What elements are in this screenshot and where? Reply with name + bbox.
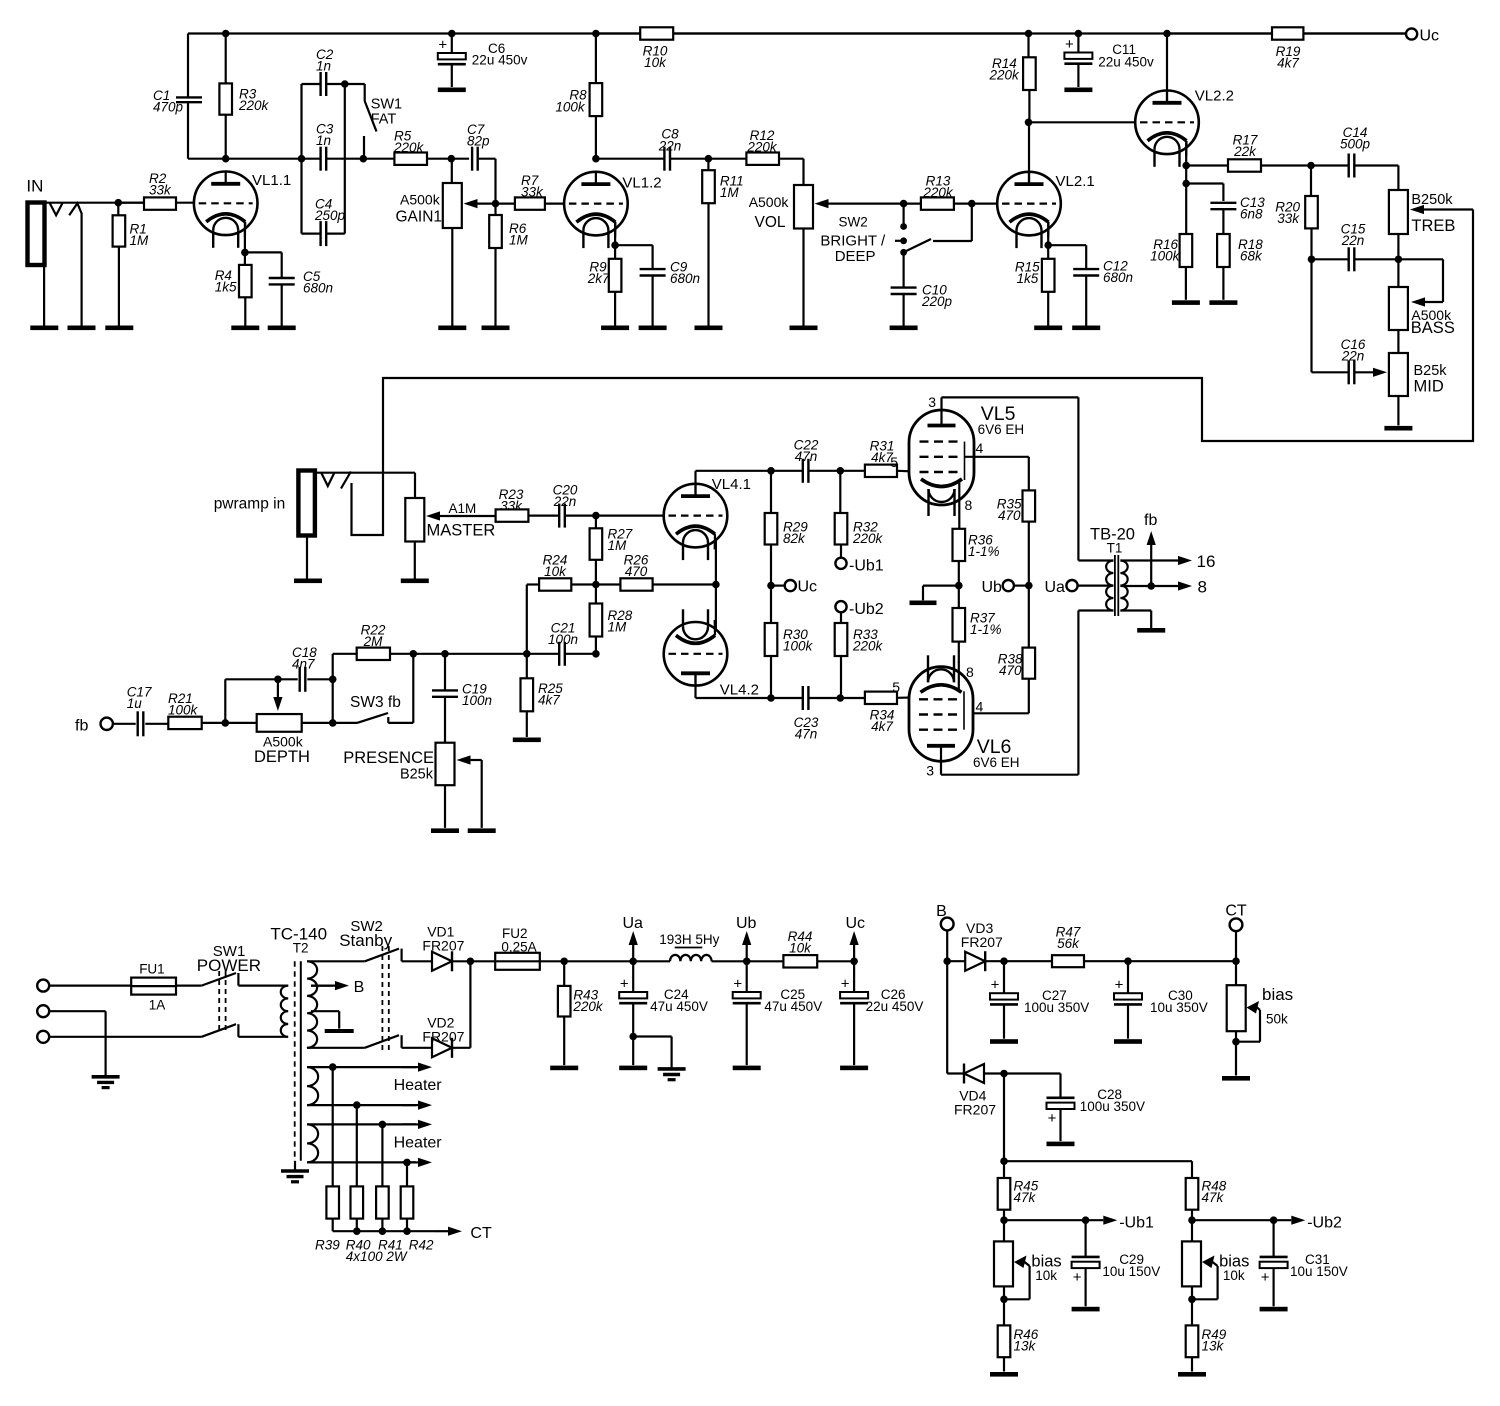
svg-text:bias: bias (1262, 985, 1293, 1004)
svg-text:Uc: Uc (1420, 28, 1440, 45)
svg-text:-Ub2: -Ub2 (849, 601, 884, 618)
svg-text:22k: 22k (1233, 144, 1257, 159)
svg-text:100k: 100k (168, 703, 199, 718)
svg-text:FR207: FR207 (422, 1029, 464, 1045)
svg-text:22n: 22n (1341, 233, 1365, 248)
svg-text:FR207: FR207 (422, 938, 464, 954)
svg-text:33k: 33k (500, 499, 523, 514)
svg-text:10k: 10k (1223, 1268, 1245, 1283)
svg-text:1M: 1M (509, 233, 529, 248)
svg-text:1-1%: 1-1% (970, 622, 1002, 637)
svg-text:1A: 1A (149, 998, 166, 1013)
svg-text:4k7: 4k7 (1277, 56, 1299, 71)
svg-text:1u: 1u (127, 696, 143, 711)
svg-text:4: 4 (976, 699, 984, 715)
svg-text:GAIN1: GAIN1 (396, 209, 443, 226)
svg-text:+: + (841, 976, 850, 993)
svg-text:220k: 220k (238, 98, 270, 113)
svg-text:+: + (1048, 1110, 1057, 1127)
svg-text:10k: 10k (1035, 1268, 1057, 1283)
svg-text:CT: CT (1225, 903, 1247, 920)
svg-text:2M: 2M (363, 634, 384, 649)
svg-text:220k: 220k (852, 531, 884, 546)
svg-text:VL4.2: VL4.2 (720, 682, 759, 699)
svg-text:22u 450v: 22u 450v (472, 53, 528, 68)
svg-text:47k: 47k (1014, 1190, 1037, 1205)
svg-text:SW1: SW1 (371, 97, 402, 113)
svg-text:680n: 680n (1103, 270, 1133, 285)
svg-text:VL1.2: VL1.2 (622, 175, 661, 192)
svg-text:250p: 250p (314, 208, 346, 223)
svg-text:pwramp in: pwramp in (214, 496, 286, 513)
svg-text:100u 350V: 100u 350V (1080, 1099, 1145, 1114)
svg-text:100u 350V: 100u 350V (1024, 1000, 1089, 1015)
svg-text:22u 450V: 22u 450V (866, 999, 924, 1014)
svg-text:Heater: Heater (394, 1135, 443, 1152)
svg-text:1k5: 1k5 (1017, 271, 1039, 286)
svg-text:220k: 220k (746, 140, 778, 155)
svg-text:Stanby: Stanby (339, 931, 392, 950)
svg-text:8: 8 (966, 664, 974, 680)
svg-text:FR207: FR207 (954, 1102, 996, 1118)
svg-text:SW2: SW2 (839, 215, 868, 230)
svg-text:DEPTH: DEPTH (254, 748, 310, 766)
svg-text:FU1: FU1 (139, 962, 165, 977)
svg-text:Ua: Ua (623, 915, 644, 932)
svg-text:-Ub1: -Ub1 (1119, 1215, 1154, 1232)
svg-text:3: 3 (926, 763, 934, 779)
svg-text:193H 5Hy: 193H 5Hy (659, 932, 719, 947)
svg-text:100n: 100n (548, 632, 578, 647)
svg-text:FR207: FR207 (961, 934, 1003, 950)
svg-text:33k: 33k (1277, 211, 1300, 226)
svg-text:0,25A: 0,25A (501, 940, 536, 955)
svg-text:13k: 13k (1014, 1339, 1037, 1354)
svg-text:470: 470 (999, 663, 1022, 678)
svg-text:470: 470 (625, 564, 648, 579)
svg-text:B25k: B25k (400, 767, 434, 783)
svg-text:470: 470 (998, 508, 1021, 523)
svg-text:BRIGHT /: BRIGHT / (820, 233, 886, 250)
svg-text:+: + (1073, 1269, 1082, 1286)
svg-text:Heater: Heater (394, 1077, 443, 1094)
svg-text:47u 450V: 47u 450V (764, 999, 822, 1014)
svg-text:10u 150V: 10u 150V (1102, 1264, 1160, 1279)
svg-text:82p: 82p (467, 134, 490, 149)
svg-text:100k: 100k (555, 100, 586, 115)
svg-text:fb: fb (1144, 512, 1157, 529)
svg-text:+: + (1065, 36, 1074, 53)
svg-text:100k: 100k (783, 639, 814, 654)
svg-text:10u 350V: 10u 350V (1150, 1000, 1208, 1015)
svg-text:6V6 EH: 6V6 EH (978, 422, 1025, 437)
svg-text:5: 5 (892, 679, 900, 695)
svg-text:4: 4 (976, 440, 984, 456)
svg-text:SW3 fb: SW3 fb (350, 694, 401, 711)
svg-text:50k: 50k (1266, 1012, 1288, 1027)
svg-text:PRESENCE: PRESENCE (343, 749, 434, 767)
svg-text:IN: IN (26, 177, 43, 196)
svg-text:+: + (620, 976, 629, 993)
svg-text:A500k: A500k (400, 192, 441, 208)
svg-text:+: + (1115, 977, 1124, 994)
svg-text:MASTER: MASTER (427, 522, 496, 540)
svg-text:fb: fb (75, 718, 88, 735)
svg-text:B: B (354, 979, 365, 996)
svg-text:13k: 13k (1202, 1339, 1225, 1354)
svg-text:T2: T2 (293, 941, 309, 956)
svg-text:220k: 220k (572, 999, 604, 1014)
svg-text:82k: 82k (783, 531, 806, 546)
svg-text:4x100 2W: 4x100 2W (346, 1249, 408, 1264)
svg-text:47n: 47n (795, 449, 818, 464)
svg-text:47k: 47k (1202, 1190, 1225, 1205)
svg-text:A1M: A1M (449, 501, 477, 516)
svg-text:1n: 1n (316, 133, 331, 148)
svg-text:10k: 10k (644, 55, 667, 70)
svg-text:VOL: VOL (755, 214, 786, 231)
svg-text:2k7: 2k7 (587, 271, 610, 286)
svg-text:1k5: 1k5 (215, 280, 237, 295)
svg-text:VL2.1: VL2.1 (1056, 173, 1095, 190)
svg-text:33k: 33k (149, 183, 172, 198)
svg-text:22n: 22n (658, 138, 682, 153)
svg-text:+: + (1261, 1269, 1270, 1286)
svg-text:Ub: Ub (982, 579, 1003, 596)
svg-text:8: 8 (1198, 578, 1207, 597)
svg-text:BASS: BASS (1411, 319, 1455, 337)
svg-text:10k: 10k (544, 564, 567, 579)
svg-text:1M: 1M (720, 185, 740, 200)
svg-text:22n: 22n (553, 494, 577, 509)
svg-text:22u 450v: 22u 450v (1098, 55, 1154, 70)
svg-text:680n: 680n (303, 281, 333, 296)
svg-text:FAT: FAT (371, 112, 397, 128)
svg-text:47n: 47n (795, 727, 818, 742)
svg-text:4k7: 4k7 (871, 719, 893, 734)
svg-text:4k7: 4k7 (538, 693, 560, 708)
svg-text:220k: 220k (922, 185, 954, 200)
svg-text:POWER: POWER (197, 956, 261, 975)
svg-text:+: + (438, 37, 447, 54)
svg-text:+: + (733, 976, 742, 993)
svg-text:-Ub2: -Ub2 (1307, 1215, 1342, 1232)
svg-text:100n: 100n (462, 693, 492, 708)
svg-text:10k: 10k (789, 941, 812, 956)
svg-text:47u 450V: 47u 450V (650, 999, 708, 1014)
svg-text:100k: 100k (1150, 249, 1181, 264)
svg-text:1-1%: 1-1% (968, 544, 1000, 559)
svg-text:MID: MID (1414, 378, 1444, 396)
svg-text:680n: 680n (670, 271, 700, 286)
svg-text:4n7: 4n7 (292, 657, 315, 672)
svg-text:5: 5 (890, 454, 898, 470)
svg-text:DEEP: DEEP (835, 248, 876, 265)
svg-text:220k: 220k (393, 140, 425, 155)
svg-text:6V6 EH: 6V6 EH (973, 755, 1020, 770)
svg-text:220p: 220p (921, 294, 953, 309)
svg-text:R39: R39 (315, 1238, 340, 1253)
svg-text:220k: 220k (852, 639, 884, 654)
svg-text:56k: 56k (1057, 936, 1080, 951)
svg-text:VL4.1: VL4.1 (712, 476, 751, 493)
svg-text:220k: 220k (989, 68, 1021, 83)
svg-text:470p: 470p (153, 100, 184, 115)
svg-text:Ua: Ua (1045, 579, 1066, 596)
svg-text:A500k: A500k (749, 194, 790, 210)
svg-text:Uc: Uc (798, 579, 818, 596)
svg-text:1n: 1n (316, 59, 331, 74)
svg-text:33k: 33k (521, 185, 544, 200)
svg-text:TREB: TREB (1411, 217, 1455, 235)
svg-text:1M: 1M (608, 620, 628, 635)
svg-text:6n8: 6n8 (1240, 207, 1263, 222)
svg-text:16: 16 (1197, 552, 1216, 571)
svg-text:1M: 1M (608, 538, 628, 553)
svg-text:3: 3 (928, 394, 936, 410)
svg-text:VL2.2: VL2.2 (1195, 88, 1234, 105)
svg-text:B250k: B250k (1411, 192, 1453, 208)
svg-text:Uc: Uc (846, 915, 866, 932)
svg-text:1M: 1M (130, 233, 150, 248)
svg-text:-Ub1: -Ub1 (849, 558, 884, 575)
svg-text:T1: T1 (1107, 541, 1123, 556)
svg-text:10u 150V: 10u 150V (1290, 1264, 1348, 1279)
svg-text:22n: 22n (1341, 349, 1365, 364)
svg-text:500p: 500p (1340, 137, 1371, 152)
svg-text:CT: CT (470, 1225, 492, 1242)
svg-text:R42: R42 (409, 1238, 434, 1253)
svg-text:VL1.1: VL1.1 (252, 172, 291, 189)
svg-text:8: 8 (965, 497, 973, 513)
svg-text:+: + (991, 977, 1000, 994)
svg-text:Ub: Ub (736, 915, 757, 932)
svg-text:68k: 68k (1240, 249, 1263, 264)
